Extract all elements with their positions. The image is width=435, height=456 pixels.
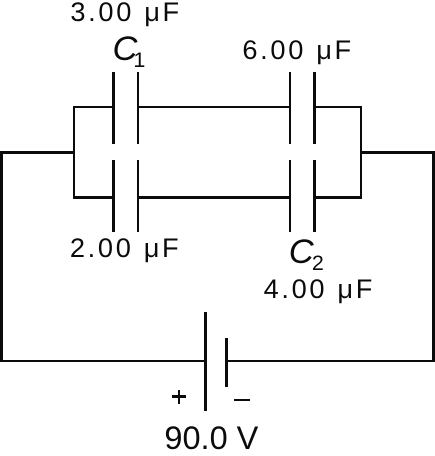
wire: bottom rail left segment — [73, 196, 114, 198]
capacitor C1 (3.00 uF) right plate — [137, 72, 139, 144]
label 90.0 V battery voltage — [164, 422, 258, 455]
label 3.00 uF for capacitor C1 — [70, 0, 181, 26]
capacitor C2 (4.00 uF) right plate — [313, 160, 315, 232]
label C2 subscript — [312, 253, 324, 275]
wire: outer left vertical — [0, 151, 3, 362]
label 6.00 uF — [242, 36, 353, 63]
label 4.00 uF — [264, 275, 375, 302]
wire: inner left vertical — [73, 106, 75, 199]
battery plus sign horizontal bar — [172, 395, 187, 397]
wire: top rail left segment — [73, 106, 114, 108]
label 2.00 uF — [70, 234, 181, 261]
capacitor 6.00 uF left plate — [289, 72, 291, 144]
capacitor 2.00 uF right plate — [137, 160, 139, 232]
battery negative short plate — [225, 338, 228, 387]
label C1 subscript — [133, 50, 145, 72]
wire: outer right vertical — [432, 151, 435, 362]
wire: left connector to parallel block — [0, 151, 75, 153]
battery plus sign vertical bar — [178, 390, 180, 404]
capacitor 6.00 uF right plate — [313, 72, 315, 144]
wire: inner right vertical — [360, 106, 362, 199]
wire: top rail right segment — [315, 106, 363, 108]
wire: outer bottom right segment — [227, 360, 435, 362]
label C2 main letter — [289, 235, 314, 270]
label C1 main letter — [113, 32, 138, 67]
capacitor C1 (3.00 uF) left plate — [112, 72, 114, 144]
wire: outer bottom left segment — [0, 360, 205, 362]
capacitor 2.00 uF left plate — [112, 160, 114, 232]
wire: bottom rail middle segment — [138, 196, 292, 198]
capacitor C2 (4.00 uF) left plate — [289, 160, 291, 232]
battery minus sign — [234, 399, 250, 401]
battery positive long plate — [204, 312, 207, 411]
wire: right connector from parallel block — [360, 151, 435, 153]
wire: top rail middle segment — [138, 106, 292, 108]
wire: bottom rail right segment — [315, 196, 363, 198]
